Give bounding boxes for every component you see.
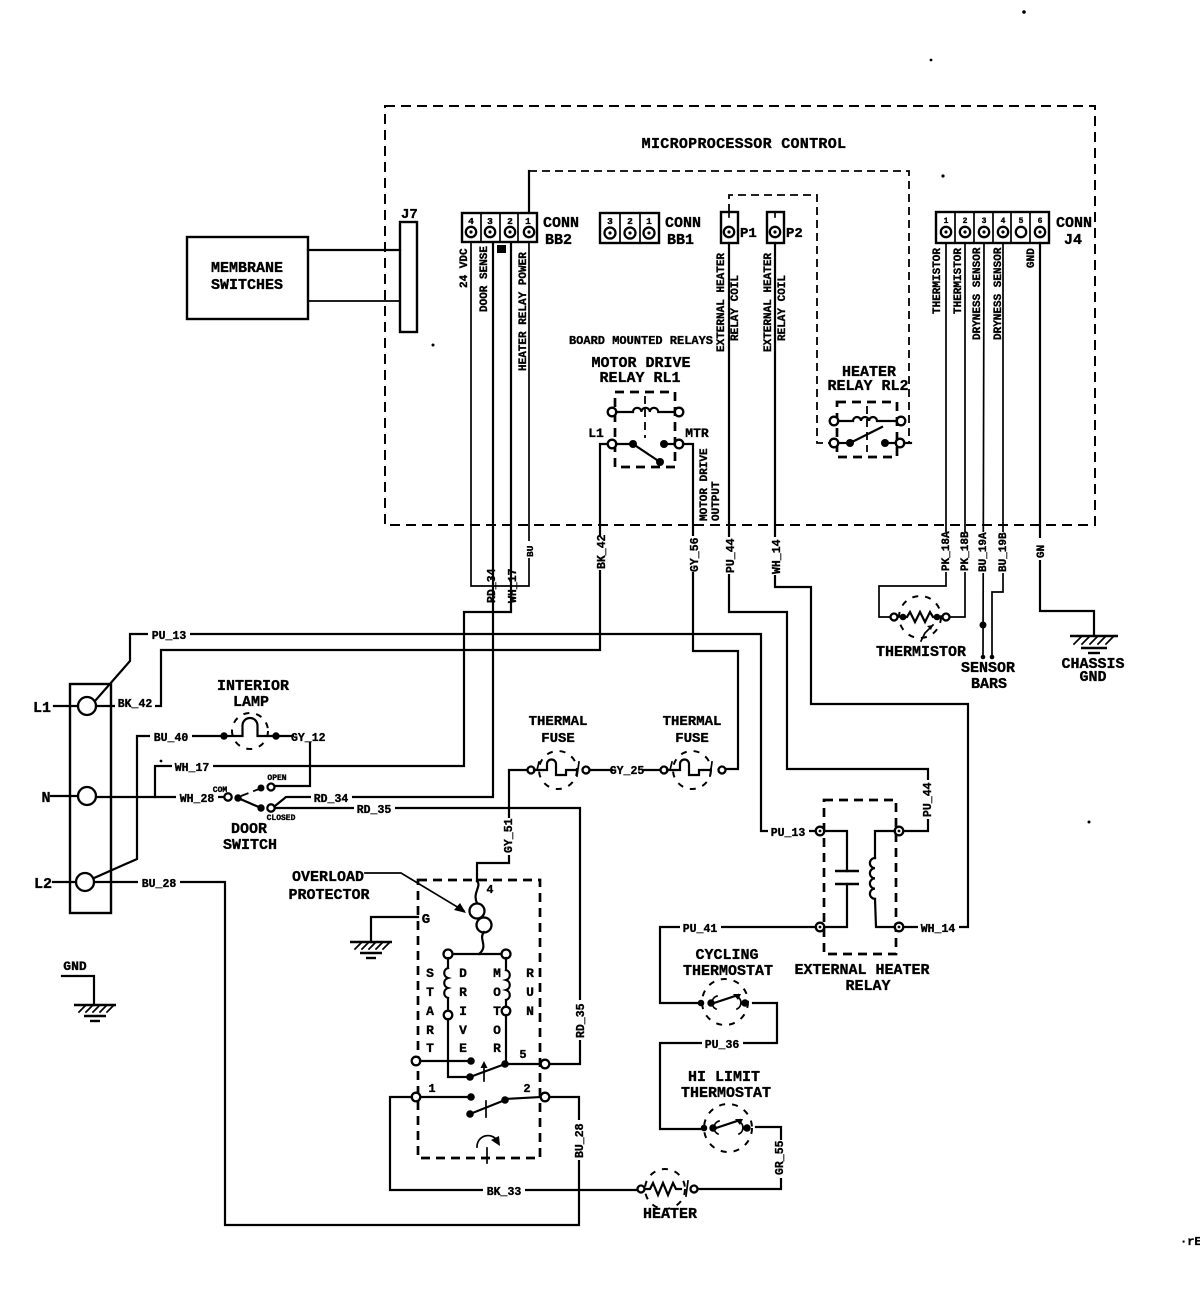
terminal L1 lead [54,705,78,707]
svg-text:BB2: BB2 [545,232,572,249]
svg-text:J4: J4 [1064,232,1082,249]
svg-text:S: S [426,966,434,981]
svg-text:T: T [426,1041,434,1056]
svg-text:J7: J7 [401,207,418,223]
svg-text:BU_40: BU_40 [154,732,189,745]
svg-text:RD_35: RD_35 [575,1003,588,1038]
svg-text:R: R [459,985,467,1000]
dashed net P1 to RL2 common contact [729,195,829,443]
svg-text:MOTOR DRIVE: MOTOR DRIVE [699,448,711,521]
svg-text:MICROPROCESSOR CONTROL: MICROPROCESSOR CONTROL [642,136,847,153]
svg-text:GR_55: GR_55 [774,1140,787,1175]
svg-text:U: U [526,985,534,1000]
wire RD_34 from door switch to CONN BB2 pin3 [275,243,499,806]
svg-text:N: N [41,790,50,807]
svg-text:CONN: CONN [1056,215,1092,232]
svg-text:M: M [493,966,501,981]
connector P1 [721,212,757,243]
wire PK_18A from J4 pin1 to thermistor [879,243,953,617]
wire WH_28 from N to door switch common [96,790,223,806]
cycling thermostat [683,947,773,1025]
svg-text:WH_28: WH_28 [180,793,215,806]
svg-text:BARS: BARS [971,676,1007,693]
svg-text:4: 4 [487,884,494,897]
svg-text:N: N [526,1004,534,1019]
svg-text:SWITCH: SWITCH [223,837,277,854]
svg-text:PU_44: PU_44 [725,538,738,573]
wire BU_19B to sensor bar [990,243,1010,659]
svg-text:PU_36: PU_36 [705,1039,740,1052]
svg-text:PU_13: PU_13 [152,630,187,643]
svg-text:5: 5 [1019,217,1024,226]
svg-text:PU_41: PU_41 [683,923,718,936]
door switch [213,774,296,854]
svg-text:BK_33: BK_33 [487,1186,522,1199]
wire GY_12 from lamp to door switch open contact [275,732,326,786]
wire GN from J4 pin6 to chassis ground [1035,243,1094,636]
scan specks [941,174,944,177]
svg-text:GN: GN [1036,545,1048,558]
svg-text:R: R [526,966,534,981]
svg-text:4: 4 [468,216,474,227]
wire PU_13 from L1 to external heater relay [95,627,815,840]
svg-text:2: 2 [963,217,968,226]
svg-text:RD_34: RD_34 [314,793,349,806]
svg-text:BU_19B: BU_19B [998,532,1010,572]
svg-text:EXTERNAL HEATER: EXTERNAL HEATER [763,253,775,352]
svg-text:BK_42: BK_42 [118,698,153,711]
jumper BB2 pin4 24VDC to pin1 [471,243,536,586]
overload protector label and arrow [288,869,466,913]
svg-text:2: 2 [523,1082,530,1096]
terminal L2 lead [53,881,76,883]
thermal fuse 2 [661,714,726,789]
wire PU_36 from cycling to hi limit thermostat [660,1003,777,1129]
svg-text:THERMAL: THERMAL [529,714,588,730]
svg-text:A: A [426,1004,434,1019]
motor overload protector [470,881,492,954]
svg-text:3: 3 [487,216,493,227]
wire BK_33 from motor contact 1 to heater [390,1097,637,1199]
svg-text:MEMBRANE: MEMBRANE [211,260,283,277]
motor rotation arrow [477,1136,500,1163]
BB2 pin2 label square [497,245,506,253]
svg-text:HI LIMIT: HI LIMIT [688,1069,760,1086]
svg-text:3: 3 [607,216,613,227]
motor run winding [502,958,511,1064]
motor ground [350,917,418,958]
svg-text:E: E [459,1041,467,1056]
svg-text:GND: GND [1026,248,1038,268]
svg-text:EXTERNAL HEATER: EXTERNAL HEATER [794,962,929,979]
microprocessor control dashed enclosure [385,106,1095,525]
svg-text:T: T [426,985,434,1000]
svg-text:P1: P1 [740,226,757,242]
svg-text:1: 1 [428,1082,435,1096]
svg-text:D: D [459,966,467,981]
motor switch contact 1 and 2 [412,1082,550,1118]
svg-text:BB1: BB1 [667,232,694,249]
svg-text:THERMAL: THERMAL [663,714,722,730]
wire WH_17 from N to CONN BB2 pin2 [155,243,520,797]
svg-text:·rE: ·rE [1180,1235,1200,1249]
svg-text:CLOSED: CLOSED [267,814,296,823]
svg-text:RELAY COIL: RELAY COIL [730,275,742,341]
svg-text:2: 2 [627,216,633,227]
svg-text:CONN: CONN [665,215,701,232]
connector CONN BB1 [600,213,701,249]
terminal N lead [51,795,78,797]
svg-text:INTERIOR: INTERIOR [217,678,289,695]
relay coil [875,831,895,858]
relay RL1 [588,392,709,467]
svg-text:GY_25: GY_25 [610,765,645,778]
motor centrifugal switch contact 5 [412,1048,550,1081]
svg-text:RELAY: RELAY [845,978,890,995]
svg-text:PK_18B: PK_18B [960,531,972,571]
svg-text:24 VDC: 24 VDC [459,248,471,288]
svg-text:COM: COM [213,786,228,795]
svg-text:OUTPUT: OUTPUT [711,481,723,521]
wire WH_14 from P2 to external heater relay coil [770,243,968,936]
svg-text:WH_14: WH_14 [921,923,956,936]
svg-text:WH_17: WH_17 [175,762,210,775]
wire membrane to J7 (upper) [308,249,400,251]
svg-text:EXTERNAL HEATER: EXTERNAL HEATER [716,253,728,352]
hi limit thermostat [681,1069,771,1152]
svg-text:OVERLOAD: OVERLOAD [292,869,364,886]
svg-text:5: 5 [519,1048,526,1062]
ground stub (left GND) [62,959,116,1021]
motor winding bus [444,950,511,959]
svg-text:DOOR: DOOR [231,821,267,838]
wire GR_55 from heater to hi limit thermostat [698,1127,787,1189]
connector CONN J4 [936,212,1092,249]
svg-text:LAMP: LAMP [233,694,269,711]
svg-text:O: O [493,1023,501,1038]
svg-text:BU_28: BU_28 [574,1123,587,1158]
svg-text:L2: L2 [34,876,52,893]
membrane switches block [187,237,308,319]
svg-text:RD_35: RD_35 [357,804,392,817]
wire BU_19A to sensor bar [977,243,990,659]
relay capacitor [824,831,847,871]
svg-text:GND: GND [63,959,87,974]
svg-text:4: 4 [1001,217,1006,226]
svg-text:THERMISTOR: THERMISTOR [876,644,966,661]
svg-text:DOOR SENSE: DOOR SENSE [479,246,491,312]
svg-text:RELAY COIL: RELAY COIL [777,275,789,341]
svg-text:T: T [493,1004,501,1019]
svg-text:THERMOSTAT: THERMOSTAT [681,1085,771,1102]
wire membrane to J7 (lower) [308,300,400,302]
svg-text:WH_14: WH_14 [771,539,784,574]
svg-text:O: O [493,985,501,1000]
svg-text:L1: L1 [33,700,51,717]
dashed net BB2 pin1 to RL2 contact (heater relay power) [529,171,909,443]
svg-text:BOARD MOUNTED RELAYS: BOARD MOUNTED RELAYS [569,334,713,348]
svg-text:V: V [459,1023,467,1038]
wire BK_42 from L1 to relay RL1 [96,444,609,711]
svg-text:SENSOR: SENSOR [961,660,1015,677]
wire GY_25 between thermal fuses [590,765,660,778]
thermistor [876,596,966,661]
svg-text:PK_18A: PK_18A [941,531,953,571]
svg-text:1: 1 [944,217,949,226]
svg-text:CYCLING: CYCLING [695,947,758,964]
svg-text:BU_19A: BU_19A [978,532,990,572]
wire BU_40 from L2 to interior lamp [94,729,221,878]
external heater relay [794,800,929,995]
svg-text:R: R [426,1023,434,1038]
svg-text:PROTECTOR: PROTECTOR [288,887,369,904]
svg-text:2: 2 [507,216,513,227]
power terminal block [70,684,111,913]
svg-text:GY_56: GY_56 [689,537,702,572]
motor start winding [444,958,467,1077]
interior lamp [217,678,289,749]
svg-text:R: R [493,1041,501,1056]
svg-text:SWITCHES: SWITCHES [211,277,283,294]
svg-text:BU_28: BU_28 [142,878,177,891]
motor dashed enclosure [418,880,540,1158]
svg-text:3: 3 [982,217,987,226]
svg-text:FUSE: FUSE [541,731,575,747]
svg-text:THERMISTOR: THERMISTOR [932,248,944,314]
wire GY_51 from thermal fuse to motor overload [477,770,527,881]
svg-text:RELAY RL2: RELAY RL2 [827,378,908,395]
svg-text:G: G [422,912,430,928]
connector CONN BB2 [462,213,579,249]
motor winding labels [426,966,534,1056]
svg-text:GY_51: GY_51 [503,818,516,853]
svg-text:CONN: CONN [543,215,579,232]
svg-text:GY_12: GY_12 [291,732,326,745]
svg-text:BK_42: BK_42 [596,534,609,569]
wire GY_56 from RL1 MTR contact to thermal fuse [683,444,738,769]
connector J7 [400,207,418,332]
wire PU_44 from P1 to external heater relay coil [724,243,935,831]
svg-text:PU_13: PU_13 [771,827,806,840]
svg-text:OPEN: OPEN [267,774,286,783]
svg-text:L1: L1 [588,426,604,441]
relay RL2 [830,402,911,457]
svg-text:FUSE: FUSE [675,731,709,747]
svg-text:THERMISTOR: THERMISTOR [953,248,965,314]
svg-text:DRYNESS SENSOR: DRYNESS SENSOR [972,247,984,340]
svg-text:I: I [459,1004,467,1019]
svg-text:RELAY RL1: RELAY RL1 [599,370,680,387]
svg-text:THERMOSTAT: THERMOSTAT [683,963,773,980]
wire BU_28 from L2 to motor contact 2 [94,875,587,1225]
svg-text:GND: GND [1079,669,1106,686]
svg-text:MTR: MTR [685,426,709,441]
svg-text:P2: P2 [786,226,803,242]
svg-text:6: 6 [1038,217,1043,226]
wire PU_41 from external heater relay to cycling thermostat [660,920,816,1003]
wire PK_18B from J4 pin2 to thermistor [950,243,972,617]
svg-text:BU: BU [525,545,536,557]
svg-text:1: 1 [646,216,652,227]
wire RD_35 from door switch to motor contact 5 [275,801,588,1064]
chassis ground symbol [1061,636,1124,686]
heater [638,1169,698,1223]
svg-text:1: 1 [525,216,531,227]
connector P2 [767,212,803,243]
svg-text:HEATER: HEATER [643,1206,697,1223]
thermal fuse 1 [528,714,590,789]
svg-text:PU_44: PU_44 [922,782,935,817]
